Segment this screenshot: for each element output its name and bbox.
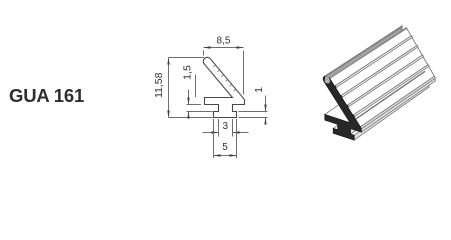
svg-text:11,58: 11,58 xyxy=(153,72,165,98)
dimension 5 foot width xyxy=(213,119,215,158)
svg-text:3: 3 xyxy=(223,121,229,132)
dimension 3 stem width xyxy=(218,119,220,137)
svg-text:1: 1 xyxy=(253,87,265,93)
serration ticks on sealing lip xyxy=(213,65,235,91)
profile cross-section outline xyxy=(203,57,244,117)
3d back cut face xyxy=(401,26,435,88)
dimension 8,5 top xyxy=(203,51,205,56)
dimension 1 right xyxy=(239,111,268,113)
svg-text:5: 5 xyxy=(222,142,228,153)
3d thick edge line at lip junction xyxy=(350,71,425,123)
svg-text:1,5: 1,5 xyxy=(181,65,193,80)
stray extension line xyxy=(195,75,197,98)
3d extruded side faces xyxy=(333,74,414,130)
dimension 11,58 left xyxy=(169,57,204,59)
3d dark front cross-section xyxy=(323,76,361,140)
svg-text:8,5: 8,5 xyxy=(217,36,231,47)
product label GUA 161 xyxy=(9,85,84,107)
dimension 1,5 xyxy=(187,104,202,106)
